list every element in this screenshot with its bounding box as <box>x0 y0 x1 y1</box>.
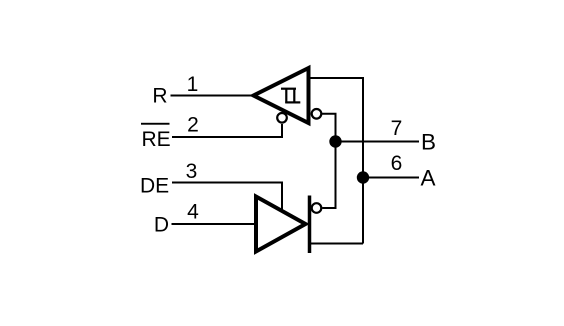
svg-text:7: 7 <box>391 117 403 140</box>
svg-text:6: 6 <box>391 152 403 175</box>
svg-text:3: 3 <box>186 160 198 183</box>
svg-text:2: 2 <box>187 114 199 137</box>
svg-text:1: 1 <box>187 73 199 96</box>
svg-text:D: D <box>154 213 169 236</box>
svg-text:DE: DE <box>140 175 169 198</box>
svg-text:4: 4 <box>187 201 199 224</box>
svg-text:R: R <box>152 85 167 108</box>
svg-text:RE: RE <box>142 128 171 151</box>
svg-text:A: A <box>421 166 436 191</box>
svg-text:B: B <box>421 130 436 155</box>
